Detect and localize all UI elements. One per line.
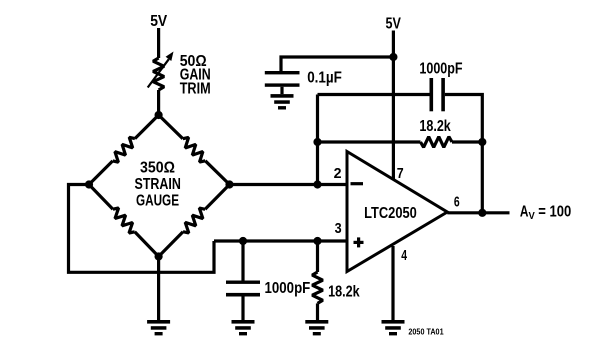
op-amp U1 LTC2050 <box>347 152 447 272</box>
svg-text:5V: 5V <box>150 13 167 30</box>
wire feedback cap left <box>318 93 430 96</box>
wire gain trim to bridge top <box>157 90 160 115</box>
ground bridge bottom <box>147 320 170 335</box>
svg-text:1000pF: 1000pF <box>265 280 311 297</box>
bridge resistor top-left arm <box>135 115 159 139</box>
svg-text:= 100: = 100 <box>538 204 571 221</box>
wire pin3 net to op-amp +input <box>214 239 347 242</box>
node bridge bottom <box>155 252 163 260</box>
wire 18.2k to ground <box>316 303 319 320</box>
wire to 1000pF bottom cap <box>241 241 244 281</box>
ground bypass cap <box>271 94 294 109</box>
op-amp noninverting input marker <box>354 241 364 244</box>
resistor 18.2k feedback <box>421 137 453 148</box>
bridge resistor top-right arm <box>159 115 183 139</box>
svg-text:GAUGE: GAUGE <box>136 192 179 209</box>
svg-text:2050 TA01: 2050 TA01 <box>408 326 443 336</box>
wire feedback right vertical <box>445 95 482 213</box>
wire 5V to gain trim top <box>157 28 160 58</box>
wire to 18.2k bottom resistor <box>316 241 319 272</box>
svg-text:350Ω: 350Ω <box>140 160 175 177</box>
op-amp inverting input marker <box>351 182 364 185</box>
capacitor 1000pF (noninverting input) <box>226 281 260 284</box>
wire output <box>447 211 509 214</box>
node bridge top junction <box>155 111 163 119</box>
svg-text:7: 7 <box>397 165 404 182</box>
svg-text:2: 2 <box>334 165 342 182</box>
ground bottom 18.2k <box>305 320 328 335</box>
wire pin4 to ground <box>391 246 394 320</box>
ground pin4 <box>382 320 405 335</box>
junction pin3/18.2k <box>313 237 321 245</box>
svg-text:V: V <box>529 210 535 222</box>
node bridge left <box>85 180 93 188</box>
wire bridge bottom to ground <box>157 257 160 321</box>
capacitor 1000pF feedback <box>430 78 434 111</box>
wire to feedback 18.2k <box>318 140 421 143</box>
wire feedback 18.2k to output net <box>452 140 482 143</box>
svg-text:18.2k: 18.2k <box>419 118 450 135</box>
bridge resistor bottom-right arm <box>205 185 229 210</box>
wire 0.1uF to ground <box>280 87 283 94</box>
svg-text:A: A <box>520 204 529 221</box>
svg-text:18.2k: 18.2k <box>328 284 360 301</box>
wire 1000pF cap to ground <box>241 297 244 321</box>
wire 5V to op-amp pin7 <box>392 31 395 181</box>
junction -input/feedback <box>313 180 321 188</box>
wire bridge right node to op-amp -input <box>230 183 348 186</box>
bridge resistor bottom-left arm <box>89 185 113 210</box>
svg-text:0.1µF: 0.1µF <box>307 70 342 87</box>
svg-text:6: 6 <box>454 193 460 210</box>
ground bottom 1000pF <box>232 320 255 335</box>
junction feedback resistor left <box>313 138 321 146</box>
wire to 0.1uF bypass cap <box>281 57 393 71</box>
svg-text:STRAIN: STRAIN <box>135 176 181 193</box>
wire bridge left node around to pin3 net <box>69 185 215 273</box>
svg-text:LTC2050: LTC2050 <box>364 205 417 222</box>
capacitor 0.1uF bypass C1 <box>265 71 300 74</box>
node bridge right <box>225 180 233 188</box>
junction pin3/1000pF <box>239 237 247 245</box>
svg-text:3: 3 <box>335 220 342 237</box>
trimmer resistor 50&#937; GAIN TRIM (variable) <box>153 58 164 90</box>
junction output/feedback <box>478 209 486 217</box>
svg-text:TRIM: TRIM <box>180 80 211 97</box>
wire feedback left vertical <box>316 95 319 185</box>
junction feedback resistor right <box>478 138 486 146</box>
resistor 18.2k (noninverting input) <box>312 272 323 303</box>
svg-text:4: 4 <box>401 247 407 264</box>
junction 5V/bypass <box>389 53 397 61</box>
svg-text:5V: 5V <box>386 16 402 33</box>
svg-text:1000pF: 1000pF <box>419 60 462 77</box>
